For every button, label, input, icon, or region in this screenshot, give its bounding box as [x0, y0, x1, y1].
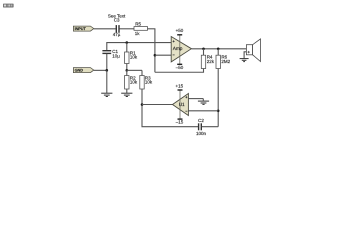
node R1/R2 junction [126, 69, 129, 72]
resistor R5 1k [134, 21, 148, 36]
loudspeaker [246, 39, 260, 62]
svg-text:10k: 10k [145, 80, 153, 85]
svg-text:U1: U1 [179, 102, 185, 108]
svg-text:100n: 100n [196, 131, 207, 136]
node R1 top [126, 41, 129, 44]
node at minus input branch [154, 54, 157, 57]
svg-text:22k: 22k [207, 59, 215, 64]
wire R6 bottom down to node X [217, 69, 219, 127]
wire U1 plus input to ground [188, 98, 203, 100]
ground at U1 [198, 99, 209, 105]
resistor R6 2M2 [216, 49, 231, 69]
wire to Amp minus input [155, 54, 171, 56]
logo top-left [3, 4, 14, 8]
wire U1 minus input to node X [188, 110, 218, 112]
connector INPUT [73, 26, 93, 31]
node U1 output [141, 103, 144, 106]
svg-text:2M2: 2M2 [221, 59, 230, 64]
supply +50 [176, 28, 184, 35]
output wire [191, 48, 246, 50]
supply +15 [175, 83, 183, 90]
node C1/GND [106, 69, 109, 72]
resistor R3 10k [140, 70, 153, 89]
ground under C1 [101, 93, 112, 96]
resistor R4 22k [201, 49, 214, 69]
supply -15 [176, 119, 184, 125]
svg-text:C2: C2 [198, 118, 204, 123]
capacitor C1 10u [102, 49, 120, 58]
svg-text:C3: C3 [114, 17, 120, 22]
node R6 top [217, 48, 220, 51]
svg-text:10k: 10k [130, 80, 138, 85]
op-amp Amp [171, 35, 191, 65]
svg-text:–50: –50 [176, 65, 184, 70]
wire U1 output [142, 104, 173, 106]
ground at speaker [240, 59, 249, 62]
wire node Y to R3 [127, 69, 142, 71]
svg-text:–15: –15 [176, 120, 184, 125]
svg-text:R5: R5 [135, 21, 141, 26]
op-amp U1 [173, 90, 189, 119]
wire INPUT to C3 [94, 28, 116, 30]
wire C2 right to node X line [202, 126, 218, 128]
supply -50 [176, 64, 184, 70]
resistor R1 10k [125, 43, 138, 71]
capacitor C3 47u [108, 14, 126, 37]
resistor R2 10k [125, 70, 138, 93]
capacitor C2 100n [196, 118, 207, 136]
node R4 top [202, 48, 205, 51]
wire speaker second terminal [244, 52, 246, 59]
wire C1 bottom [106, 54, 108, 71]
svg-text:+50: +50 [176, 28, 184, 33]
wire GND to C1 node [94, 69, 107, 71]
wire R4 bottom feedback [155, 69, 204, 73]
svg-text:GND: GND [75, 69, 84, 73]
svg-text:+15: +15 [175, 83, 183, 88]
wire R5 to corner [148, 28, 156, 30]
svg-text:INPUT: INPUT [75, 27, 87, 31]
svg-text:10µ: 10µ [112, 54, 120, 59]
wire down to ground [106, 70, 108, 93]
wire plus-input net [107, 43, 171, 51]
svg-text:Amp: Amp [173, 46, 183, 52]
node X [217, 110, 220, 113]
connector GND [73, 68, 93, 73]
wire vertical down to feedback [154, 29, 156, 72]
svg-text:47µ: 47µ [113, 32, 121, 37]
wire C3 to R5 [120, 28, 135, 30]
ground under R2 [121, 93, 132, 96]
wire R3 bottom to C2 corner [142, 89, 198, 127]
svg-text:10k: 10k [130, 54, 138, 59]
svg-text:1k: 1k [135, 31, 141, 36]
